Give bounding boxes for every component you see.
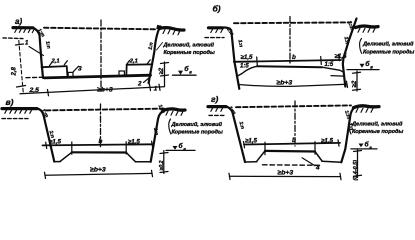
ground hatch left b	[211, 29, 223, 33]
right ground hatch	[163, 30, 180, 35]
svg-text:1:n: 1:n	[237, 39, 244, 47]
centerline g	[294, 101, 296, 146]
callout 1 leader	[29, 47, 44, 56]
right slope wall b	[343, 19, 357, 87]
svg-text:1:m: 1:m	[157, 104, 167, 115]
ground line left b	[209, 26, 223, 29]
drainage square left	[68, 72, 73, 76]
dim ticks b	[257, 55, 340, 66]
svg-text:1:n: 1:n	[152, 127, 159, 135]
svg-text:1:5: 1:5	[325, 62, 334, 68]
svg-text:≥2: ≥2	[351, 80, 358, 87]
water mark level line b	[347, 69, 379, 71]
svg-text:≥1,5: ≥1,5	[128, 138, 141, 145]
leader to soil text	[157, 43, 163, 51]
trench bottom	[44, 75, 150, 78]
bottom dim line v	[45, 173, 152, 175]
right ground wavy v	[163, 109, 185, 111]
drainage dashed bottom g	[263, 164, 323, 167]
top dashed line g	[236, 105, 351, 107]
brace g	[349, 119, 351, 135]
right berm dim tick 2	[147, 60, 150, 64]
vertical dim line b	[356, 71, 358, 91]
dim line top v	[43, 144, 153, 145]
right ground hatch v	[166, 111, 183, 115]
ground dashed continuation	[44, 28, 156, 30]
svg-text:≥0,2: ≥0,2	[159, 160, 165, 170]
callout 3 leader	[73, 66, 78, 72]
cuvette slope right b	[322, 67, 343, 72]
svg-text:≥1,5: ≥1,5	[241, 54, 254, 61]
svg-text:1:n: 1:n	[148, 42, 155, 50]
top dashed line b	[234, 21, 351, 24]
svg-text:1:5: 1:5	[240, 64, 249, 70]
dim ticks a	[48, 84, 161, 96]
platform line v	[72, 151, 126, 153]
svg-text:≥b+3: ≥b+3	[90, 166, 106, 173]
svg-text:г): г)	[211, 94, 219, 104]
platform chamfer right v	[126, 153, 135, 162]
svg-text:2,5: 2,5	[29, 87, 40, 94]
centerline v	[100, 104, 102, 147]
cuvette bottom left g	[245, 161, 257, 163]
ground edge diamond	[156, 25, 162, 30]
brace b	[360, 39, 362, 54]
callout 4 leader g	[302, 158, 315, 166]
platform chamfer left g	[257, 151, 265, 161]
ground hatch left v	[5, 109, 32, 113]
bottom dim line g	[230, 175, 341, 177]
svg-text:≥2: ≥2	[159, 67, 165, 74]
cuvette bottom left v	[54, 161, 60, 163]
right ground hatch b	[358, 28, 375, 32]
cuvette slope left b	[238, 66, 258, 76]
svg-text:4: 4	[315, 165, 320, 172]
water mark triangle a	[178, 71, 183, 75]
svg-text:Делювий, элювий: Делювий, элювий	[163, 42, 215, 49]
water mark level line v	[166, 149, 195, 151]
bottom dim ticks g	[229, 173, 341, 180]
left slope wall b	[222, 28, 239, 89]
svg-text:Делювий, элювий: Делювий, элювий	[171, 121, 223, 128]
ground line left (thick)	[13, 26, 33, 29]
soil layer dashed b	[205, 37, 224, 39]
dim ticks v	[46, 141, 153, 154]
cuvette bottom right b	[331, 75, 344, 78]
svg-text:1:m: 1:m	[36, 28, 46, 39]
callout 2 leader a	[144, 77, 150, 82]
platform line b	[257, 65, 322, 68]
left slope wall v	[37, 109, 54, 162]
soil layer dashed line left	[3, 37, 23, 40]
centerline b	[289, 17, 291, 64]
extension line right toe a	[148, 78, 150, 86]
svg-text:b: b	[292, 137, 296, 144]
ground hatch left	[15, 28, 35, 32]
centerline a	[100, 20, 102, 92]
left slope wall g	[226, 107, 246, 162]
svg-text:(0,4-0,5): (0,4-0,5)	[353, 160, 359, 181]
right slope wall g	[341, 107, 356, 163]
water mark level line a	[173, 74, 197, 76]
left berm drop	[66, 66, 69, 77]
right ground wavy g	[354, 106, 380, 108]
svg-text:≥1,5: ≥1,5	[49, 138, 62, 145]
dim ticks g	[244, 140, 340, 155]
svg-text:Делювий, элювий: Делювий, элювий	[351, 121, 403, 128]
ground hatch left g	[211, 107, 223, 111]
svg-text:Делювий, элювий: Делювий, элювий	[362, 40, 414, 47]
vertical dimension line	[19, 41, 24, 94]
bottom dim line b	[238, 84, 347, 86]
left slope wall	[33, 28, 43, 78]
bottom dim ticks b	[238, 81, 347, 87]
left berm dim tick 2	[64, 61, 67, 65]
right ground hatch g	[356, 108, 373, 112]
water mark triangle v	[173, 146, 178, 150]
svg-text:≥1,5: ≥1,5	[321, 138, 334, 145]
bottom dimension line a	[20, 87, 164, 94]
right slope wall v	[151, 111, 165, 162]
trench bottom dashed extension	[26, 76, 43, 79]
svg-text:b: b	[99, 138, 103, 145]
vertical dim line g	[357, 149, 359, 177]
svg-text:1:n: 1:n	[238, 121, 246, 130]
platform chamfer right g	[315, 152, 322, 162]
ground line left v	[2, 107, 37, 110]
water mark triangle g	[359, 144, 364, 148]
cuvette bottom right g	[322, 161, 341, 162]
vertical dimension ticks	[16, 44, 26, 87]
right ground line wavy	[161, 28, 185, 30]
svg-text:≥1,5: ≥1,5	[245, 138, 258, 145]
svg-text:в: в	[189, 69, 192, 74]
svg-text:2,1: 2,1	[51, 59, 60, 65]
brace v	[169, 119, 171, 134]
left berm dim tick 1	[50, 62, 53, 66]
svg-text:1: 1	[25, 41, 29, 47]
svg-text:2,8: 2,8	[12, 66, 18, 76]
top dashed line v	[46, 109, 165, 111]
bottom dim ticks v	[45, 170, 153, 178]
soil layer dashed v	[2, 118, 28, 120]
dim line top b	[234, 60, 341, 62]
svg-text:1:n: 1:n	[343, 36, 350, 45]
svg-text:2: 2	[137, 81, 142, 88]
water mark level line g	[351, 148, 377, 150]
ground line left g	[208, 105, 226, 108]
svg-text:≥b+3: ≥b+3	[278, 169, 294, 176]
right vertical dim ticks a	[161, 63, 169, 77]
vertical dim ticks b	[353, 72, 361, 90]
vertical dim ticks g	[354, 151, 362, 177]
water mark triangle b	[360, 64, 365, 68]
svg-text:Коренные породы: Коренные породы	[164, 50, 215, 56]
svg-text:Коренные породы: Коренные породы	[363, 49, 414, 55]
right berm dim tick 1	[127, 60, 130, 64]
svg-text:≥b+3: ≥b+3	[277, 79, 293, 86]
platform chamfer left v	[60, 152, 72, 161]
svg-text:2,1: 2,1	[129, 58, 138, 64]
svg-text:в: в	[370, 65, 373, 70]
left berm top	[42, 66, 67, 67]
right vertical dim line a	[164, 62, 166, 87]
right berm top	[127, 63, 152, 65]
drainage square right	[119, 71, 124, 76]
vertical dim ticks v	[160, 153, 168, 173]
svg-text:б): б)	[213, 4, 221, 14]
cuvette bottom right v	[136, 161, 151, 163]
svg-text:Коренные породы: Коренные породы	[352, 129, 403, 135]
svg-text:1:m: 1:m	[225, 26, 235, 37]
dim line top g	[244, 143, 340, 145]
right ground wavy b	[356, 26, 379, 28]
svg-text:Коренные породы: Коренные породы	[172, 130, 223, 136]
right slope wall	[149, 26, 161, 83]
svg-text:а): а)	[15, 17, 22, 26]
right berm drop	[125, 65, 127, 77]
svg-text:1:n: 1:n	[44, 41, 51, 50]
svg-text:b: b	[292, 54, 296, 61]
svg-text:≥b+3: ≥b+3	[97, 86, 113, 93]
platform line g	[265, 150, 315, 153]
vertical dim line v	[163, 151, 165, 174]
svg-text:1: 1	[154, 86, 158, 93]
svg-text:в): в)	[6, 97, 14, 107]
soil layer dashed g	[209, 114, 226, 116]
